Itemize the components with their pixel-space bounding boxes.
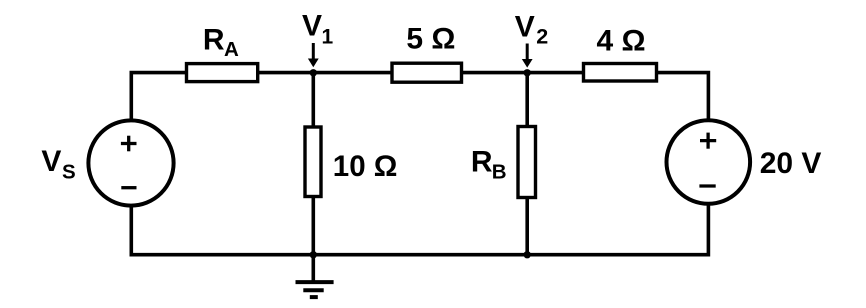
node V1 pointer arrow <box>308 43 319 67</box>
label V1 <box>302 9 334 48</box>
resistor RB <box>518 127 536 198</box>
node V2 pointer arrow <box>522 44 533 68</box>
resistor 4 Ohm <box>584 64 657 82</box>
svg-text:B: B <box>492 161 507 184</box>
node V2 junction dot <box>524 69 531 76</box>
ground <box>296 255 334 297</box>
junction dot bottom right <box>524 251 531 258</box>
wire branch V2 to bottom node <box>525 73 529 255</box>
svg-text:2: 2 <box>536 24 548 48</box>
20V plus terminal <box>700 133 716 149</box>
resistor 5 Ohm <box>392 63 462 82</box>
svg-text:A: A <box>224 38 239 61</box>
svg-text:S: S <box>62 161 76 184</box>
20V minus terminal <box>699 184 715 187</box>
VS plus terminal <box>121 136 137 152</box>
label RB <box>471 145 507 183</box>
svg-text:R: R <box>203 23 225 56</box>
svg-text:5 Ω: 5 Ω <box>406 23 455 56</box>
resistor RA <box>187 64 258 82</box>
svg-text:20 V: 20 V <box>760 147 822 180</box>
label V2 <box>515 11 549 49</box>
junction dot bottom left (ground node) <box>310 251 317 258</box>
label VS <box>41 145 75 184</box>
node V1 junction dot <box>310 69 317 76</box>
wire bottom loop: VS bottom to 20V bottom <box>131 162 708 255</box>
svg-text:V: V <box>515 11 535 44</box>
voltage source 20V circle <box>667 120 751 204</box>
svg-text:4 Ω: 4 Ω <box>597 25 646 58</box>
wire top loop: VS top to 20V top <box>131 73 708 163</box>
svg-text:V: V <box>302 9 322 42</box>
svg-text:R: R <box>471 145 493 178</box>
VS minus terminal <box>121 186 136 189</box>
svg-text:1: 1 <box>322 26 334 49</box>
wire branch V1 to ground node <box>311 73 315 255</box>
label RA <box>203 23 239 61</box>
svg-text:V: V <box>41 145 61 178</box>
voltage source VS circle <box>88 120 173 205</box>
svg-text:10 Ω: 10 Ω <box>333 150 398 183</box>
resistor 10 Ohm <box>305 127 321 197</box>
